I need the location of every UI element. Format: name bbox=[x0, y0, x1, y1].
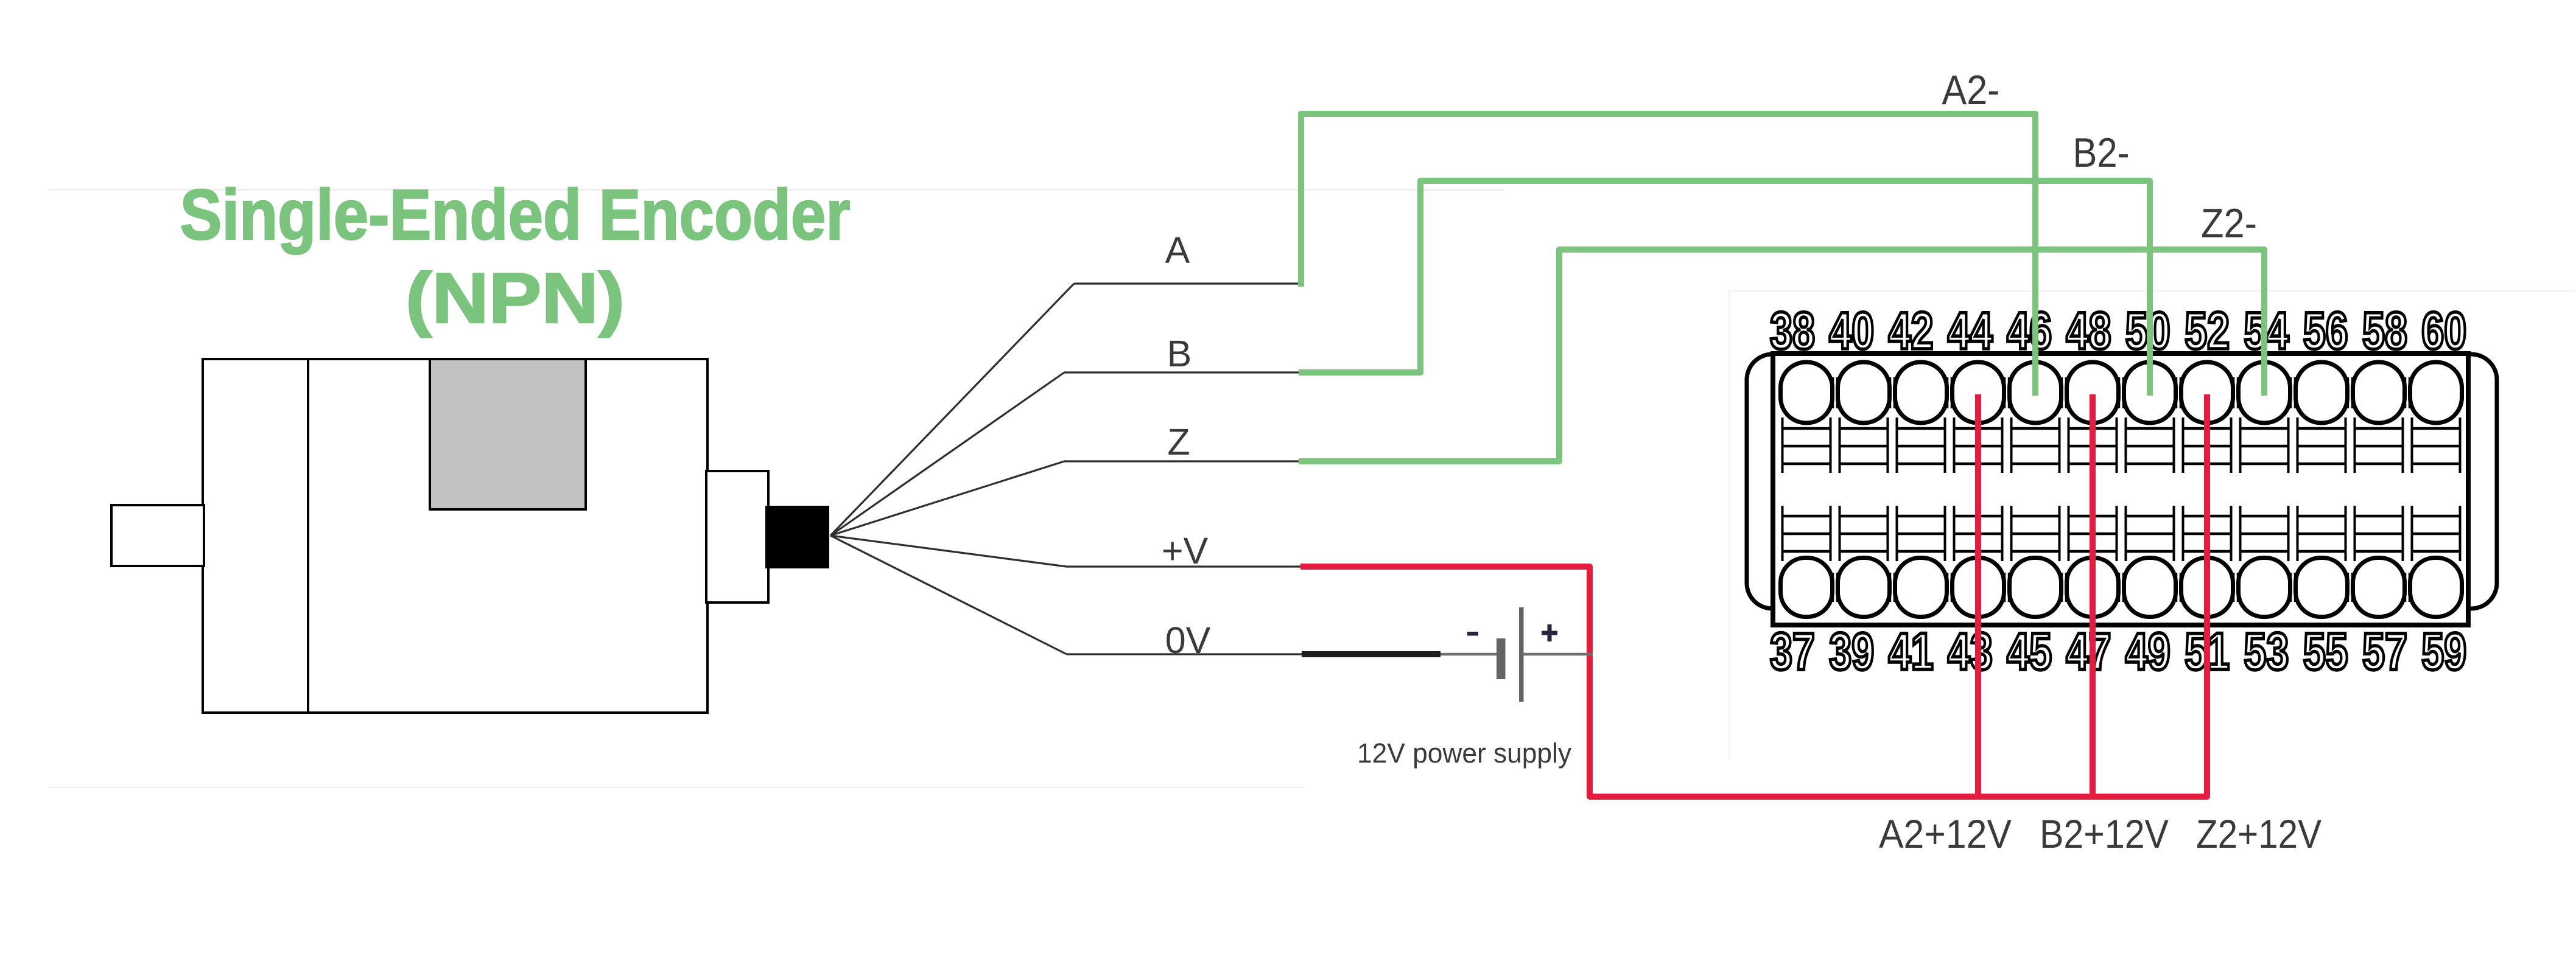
svg-text:39: 39 bbox=[1829, 623, 1874, 681]
svg-text:Z2+12V: Z2+12V bbox=[2196, 811, 2322, 856]
svg-text:B: B bbox=[1167, 333, 1192, 374]
pin column 38/37 bbox=[1781, 362, 1837, 617]
0V thick black lead bbox=[1302, 651, 1441, 657]
svg-text:(NPN): (NPN) bbox=[405, 258, 625, 338]
red riser to pin 44 (A2+12V) bbox=[1975, 394, 1981, 797]
pin column 52/51 bbox=[2181, 362, 2238, 617]
svg-text:43: 43 bbox=[1948, 623, 1993, 681]
battery negative plate bbox=[1497, 638, 1506, 679]
seam line bbox=[48, 189, 1504, 190]
encoder shaft bbox=[111, 505, 204, 566]
wire A horizontal bbox=[1074, 282, 1302, 284]
svg-text:49: 49 bbox=[2125, 623, 2171, 681]
svg-text:48: 48 bbox=[2066, 302, 2111, 360]
encoder rear boss bbox=[706, 471, 768, 602]
encoder cable gland (black) bbox=[765, 506, 829, 568]
pin column 48/47 bbox=[2067, 362, 2124, 617]
pin column 50/49 bbox=[2124, 362, 2181, 617]
pin column 44/43 bbox=[1953, 362, 2009, 617]
battery positive lead bbox=[1523, 653, 1593, 656]
svg-text:52: 52 bbox=[2185, 302, 2230, 360]
svg-text:37: 37 bbox=[1770, 623, 1815, 681]
wire +V horizontal bbox=[1067, 565, 1302, 567]
green wire B to pin 50 (B2-) bbox=[1299, 181, 2150, 396]
wire fan-out to 0V bbox=[830, 536, 1067, 654]
svg-text:A2+12V: A2+12V bbox=[1879, 811, 2012, 856]
svg-text:42: 42 bbox=[1889, 302, 1934, 360]
red riser to pin 48 (B2+12V) bbox=[2090, 394, 2096, 797]
seam line bottom bbox=[49, 787, 1302, 788]
seam line terminal block image left bbox=[1728, 291, 1730, 760]
wire fan-out to +V bbox=[830, 536, 1067, 567]
battery minus sign bbox=[1467, 632, 1478, 636]
battery plus sign bbox=[1542, 631, 1557, 635]
wire fan-out to Z bbox=[830, 461, 1064, 536]
svg-text:41: 41 bbox=[1889, 623, 1934, 681]
wire Z horizontal bbox=[1064, 460, 1300, 462]
pin column 58/57 bbox=[2353, 362, 2410, 617]
svg-text:57: 57 bbox=[2362, 623, 2407, 681]
svg-text:47: 47 bbox=[2066, 623, 2111, 681]
top pin numbers 38-60 bbox=[1770, 302, 2466, 360]
svg-text:53: 53 bbox=[2244, 623, 2289, 681]
svg-text:38: 38 bbox=[1770, 302, 1815, 360]
encoder top gray block bbox=[430, 359, 586, 509]
svg-text:Z2-: Z2- bbox=[2201, 200, 2257, 246]
svg-text:B2-: B2- bbox=[2073, 130, 2130, 176]
green wire Z to pin 54 (Z2-) bbox=[1299, 250, 2264, 461]
pin column 56/55 bbox=[2296, 362, 2353, 617]
svg-text:60: 60 bbox=[2421, 302, 2466, 360]
wire fan-out to B bbox=[830, 372, 1064, 536]
svg-text:A2-: A2- bbox=[1942, 67, 2000, 113]
pin column 54/53 bbox=[2239, 362, 2295, 617]
svg-text:45: 45 bbox=[2007, 623, 2052, 681]
pin column 60/59 bbox=[2410, 362, 2462, 617]
svg-text:A: A bbox=[1165, 229, 1190, 271]
wire 0V horizontal bbox=[1067, 653, 1303, 655]
svg-text:46: 46 bbox=[2007, 302, 2052, 360]
pin column 46/45 bbox=[2010, 362, 2066, 617]
battery negative lead bbox=[1441, 653, 1497, 656]
pin column 42/41 bbox=[1895, 362, 1952, 617]
svg-text:58: 58 bbox=[2362, 302, 2407, 360]
svg-text:12V power supply: 12V power supply bbox=[1357, 738, 1571, 769]
svg-text:56: 56 bbox=[2303, 302, 2348, 360]
red wire +V to 12V bus bbox=[1300, 394, 2207, 797]
svg-text:59: 59 bbox=[2421, 623, 2466, 681]
bottom pin numbers 37-59 bbox=[1770, 623, 2466, 681]
wire fan-out to A bbox=[830, 284, 1074, 536]
battery positive plate bbox=[1519, 607, 1524, 702]
svg-text:55: 55 bbox=[2303, 623, 2348, 681]
wire B horizontal bbox=[1064, 371, 1300, 373]
svg-text:B2+12V: B2+12V bbox=[2040, 811, 2169, 856]
svg-text:40: 40 bbox=[1829, 302, 1874, 360]
svg-text:+V: +V bbox=[1162, 530, 1209, 571]
svg-text:Single-Ended Encoder: Single-Ended Encoder bbox=[180, 175, 851, 254]
svg-text:Z: Z bbox=[1167, 421, 1190, 463]
encoder body flange line bbox=[307, 359, 309, 713]
pin column 40/39 bbox=[1838, 362, 1895, 617]
svg-text:0V: 0V bbox=[1165, 620, 1211, 661]
seam line terminal block image top bbox=[1729, 290, 2574, 292]
terminal block body bbox=[1773, 354, 2468, 625]
green wire A to pin 46 (A2-) bbox=[1301, 114, 2035, 396]
encoder body bbox=[203, 359, 707, 713]
svg-text:44: 44 bbox=[1948, 302, 1993, 360]
terminal block rounded end tabs bbox=[1747, 354, 2497, 609]
